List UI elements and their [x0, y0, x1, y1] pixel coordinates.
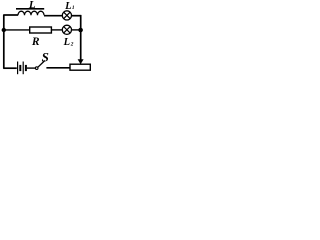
node: left junction dot — [2, 28, 6, 32]
wire: battery to switch — [27, 67, 35, 69]
wire: top branch lamp L1 to right corner — [71, 15, 80, 17]
inductor L core bar — [16, 8, 44, 10]
inductor L coil — [18, 11, 44, 15]
wire: right vertical from top corner down to rheostat arrow — [80, 15, 82, 60]
battery cell plate long 1 — [17, 62, 19, 75]
svg-text:L: L — [64, 1, 71, 12]
rheostat body — [70, 64, 90, 70]
switch S pivot — [35, 67, 38, 70]
battery cell plate short 2 — [19, 65, 21, 71]
svg-text:L: L — [28, 0, 36, 11]
switch S lever — [38, 61, 45, 68]
rheostat wiper arrowhead — [78, 59, 84, 64]
lamp L1 — [62, 11, 71, 20]
wire: top branch left segment — [3, 14, 18, 16]
lamp L2 — [62, 25, 71, 34]
wire: switch to rheostat — [46, 67, 70, 69]
battery cell plate long 3 — [22, 62, 24, 75]
resistor R body — [30, 27, 52, 33]
wire: middle branch resistor to lamp L2 — [52, 29, 63, 31]
wire: top branch between coil and lamp L1 — [44, 15, 63, 17]
svg-text:R: R — [31, 36, 40, 48]
wire: middle branch lamp L2 to right junction — [72, 29, 80, 31]
svg-text:1: 1 — [72, 5, 75, 11]
wire: middle branch from left junction to resistor — [4, 29, 30, 31]
wire: bottom-left from left vertical to battery — [3, 67, 17, 69]
svg-text:2: 2 — [70, 41, 74, 47]
battery cell plate short 4 — [25, 65, 27, 71]
svg-text:L: L — [63, 37, 70, 48]
svg-text:S: S — [42, 50, 49, 65]
wire: left vertical from top-left corner to bottom-left corner — [3, 15, 5, 68]
node: right junction dot — [78, 28, 83, 33]
